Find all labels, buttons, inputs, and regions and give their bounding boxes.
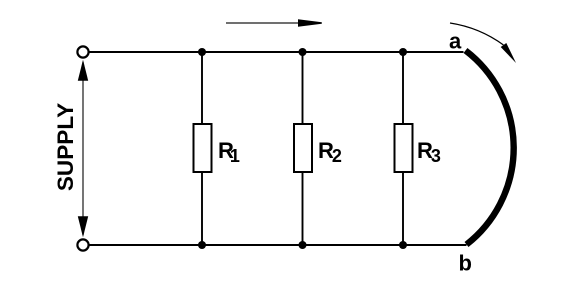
- node junction top R2: [299, 48, 307, 56]
- resistor R1: [194, 124, 212, 172]
- supply dimension arrowhead (up): [78, 60, 88, 81]
- wire top bus: [89, 51, 464, 53]
- rotation arrowhead: [501, 43, 516, 63]
- resistor R3: [395, 124, 413, 172]
- wire branch R3: [402, 52, 404, 245]
- node junction top R3: [399, 48, 407, 56]
- terminal (supply -, bottom left): [77, 239, 88, 250]
- node junction top R1: [198, 48, 206, 56]
- current direction arrowhead: [298, 19, 322, 27]
- svg-text:SUPPLY: SUPPLY: [53, 103, 78, 191]
- svg-text:a: a: [449, 29, 462, 54]
- svg-text:b: b: [459, 251, 472, 276]
- wire bottom bus: [89, 244, 467, 246]
- resistor R2: [294, 124, 312, 172]
- supply dimension line: [82, 62, 84, 235]
- terminal (supply +, top left): [77, 46, 88, 57]
- rotation arrow curve (top right): [450, 23, 504, 45]
- svg-text:R3: R3: [417, 138, 441, 166]
- node junction bottom R2: [299, 241, 307, 249]
- node junction bottom R3: [399, 241, 407, 249]
- wire branch R2: [302, 52, 304, 245]
- supply dimension arrowhead (down): [78, 216, 88, 237]
- node junction bottom R1: [198, 241, 206, 249]
- moving contact arc a-b (thick): [466, 51, 514, 245]
- svg-text:R1: R1: [218, 138, 240, 166]
- current direction arrow shaft (top): [226, 22, 299, 24]
- wire branch R1: [201, 52, 203, 245]
- svg-text:R2: R2: [318, 138, 342, 166]
